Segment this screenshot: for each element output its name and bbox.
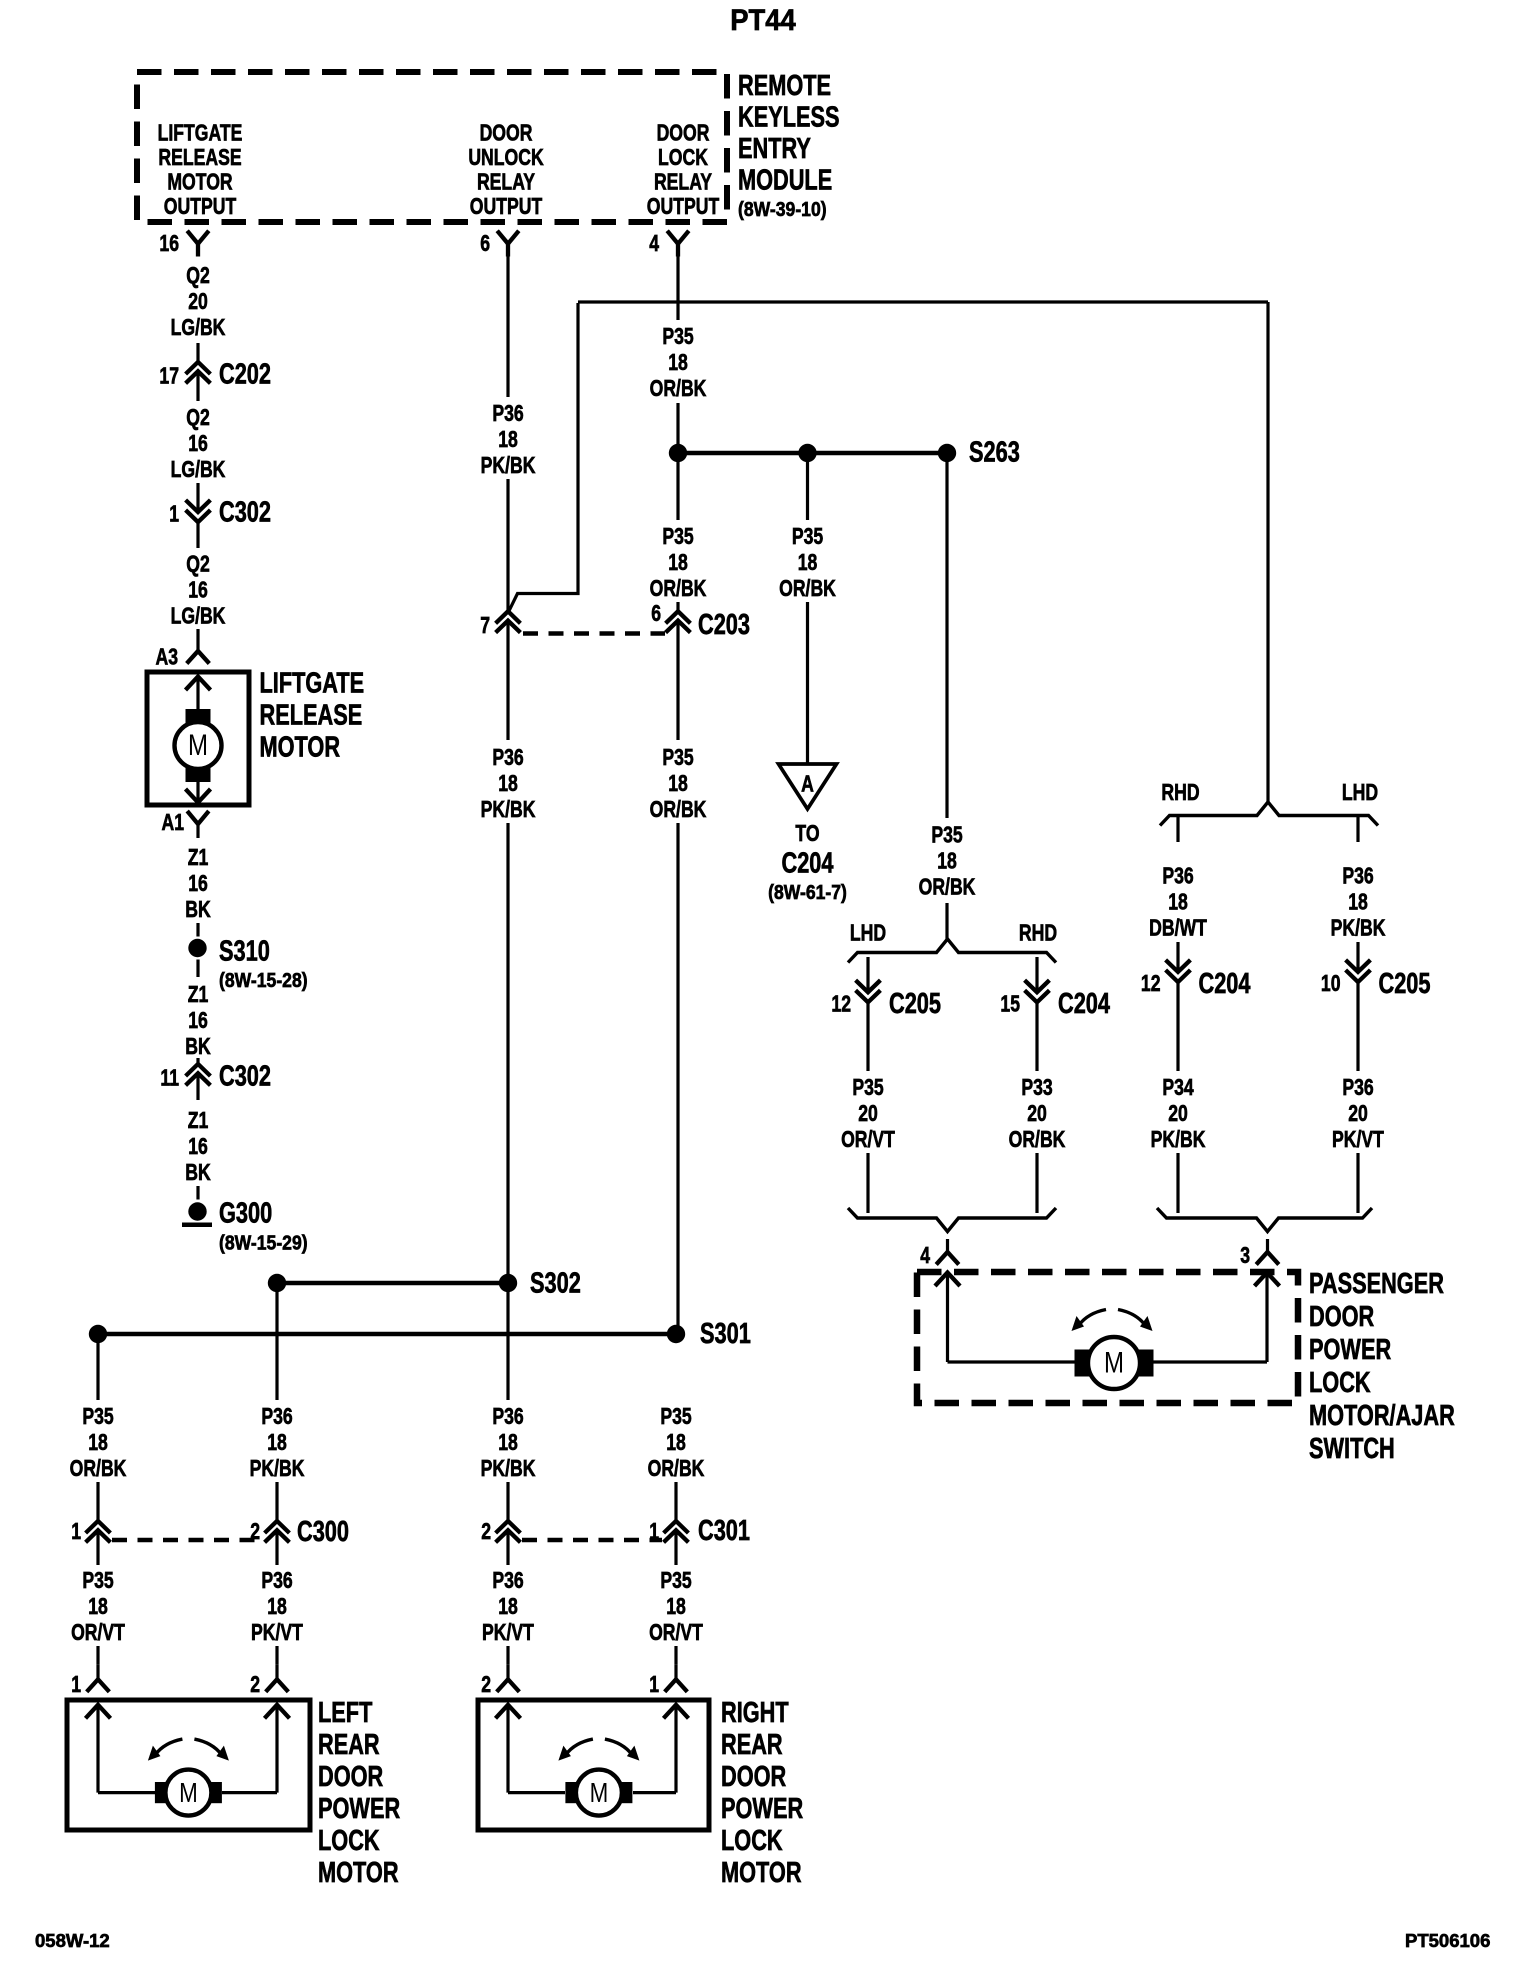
svg-text:PK/VT: PK/VT <box>251 1620 303 1646</box>
svg-text:RELEASE: RELEASE <box>158 145 241 171</box>
svg-text:18: 18 <box>88 1430 108 1456</box>
svg-text:18: 18 <box>798 550 818 576</box>
label: RIGHT REAR DOOR POWER LOCK MOTOR <box>721 1697 803 1889</box>
brace merge to passenger pin 3 <box>1157 1208 1372 1232</box>
svg-text:P35: P35 <box>662 324 693 350</box>
connector C300 pin 2 <box>250 1516 349 1548</box>
svg-text:P35: P35 <box>82 1568 113 1594</box>
svg-text:PK/VT: PK/VT <box>1332 1127 1384 1153</box>
svg-text:G300: G300 <box>219 1198 272 1230</box>
svg-text:20: 20 <box>188 289 208 315</box>
wire Q2 16 LG/BK (C302 to liftgate motor) <box>171 522 226 636</box>
svg-text:DOOR: DOOR <box>318 1761 383 1793</box>
svg-text:C204: C204 <box>1199 968 1252 1000</box>
svg-text:REAR: REAR <box>318 1729 380 1761</box>
wire P35 18 OR/BK (S263 to triangle A) <box>779 462 836 763</box>
wire P35 18 OR/BK (S301 to C300-1) <box>70 1334 127 1521</box>
svg-text:SWITCH: SWITCH <box>1309 1433 1395 1465</box>
svg-text:OR/VT: OR/VT <box>841 1127 895 1153</box>
svg-text:C204: C204 <box>782 848 835 880</box>
svg-text:18: 18 <box>498 1430 518 1456</box>
svg-text:(8W-15-28): (8W-15-28) <box>219 969 308 991</box>
module label: REMOTE KEYLESS ENTRY MODULE (8W-39-10) <box>738 70 840 220</box>
splice S302 <box>268 1268 581 1300</box>
svg-text:PASSENGER: PASSENGER <box>1309 1268 1444 1300</box>
svg-text:P36: P36 <box>1342 863 1373 889</box>
liftgate motor pin A3 <box>155 636 209 670</box>
svg-text:1: 1 <box>169 501 179 527</box>
wire P36 18 DB/WT (brace to C204-12) <box>1149 817 1207 972</box>
svg-text:P36: P36 <box>261 1404 292 1430</box>
svg-text:PK/BK: PK/BK <box>481 1456 536 1482</box>
svg-text:POWER: POWER <box>1309 1334 1391 1366</box>
connector C205 pin 10 <box>1321 960 1431 1000</box>
module U1: Remote Keyless Entry Module box <box>137 72 727 222</box>
svg-text:MOTOR: MOTOR <box>721 1857 802 1889</box>
svg-text:(8W-61-7): (8W-61-7) <box>768 881 847 903</box>
svg-text:OR/BK: OR/BK <box>70 1456 127 1482</box>
svg-text:C300: C300 <box>297 1516 349 1548</box>
label: PASSENGER DOOR POWER LOCK MOTOR/AJAR SWITCH <box>1309 1268 1455 1465</box>
svg-text:OUTPUT: OUTPUT <box>647 194 720 220</box>
svg-text:S302: S302 <box>530 1268 581 1300</box>
connector C204 pin 15 <box>1000 957 1110 1020</box>
svg-text:6: 6 <box>651 601 661 627</box>
door lock bus wire to right side <box>578 300 1268 303</box>
svg-text:PT506106: PT506106 <box>1405 1930 1490 1951</box>
svg-text:6: 6 <box>480 231 490 257</box>
svg-text:UNLOCK: UNLOCK <box>468 145 543 171</box>
svg-text:20: 20 <box>1027 1101 1047 1127</box>
svg-text:PK/BK: PK/BK <box>1151 1127 1206 1153</box>
svg-text:A1: A1 <box>161 810 184 836</box>
svg-text:Z1: Z1 <box>188 845 209 871</box>
svg-text:12: 12 <box>831 991 851 1017</box>
svg-text:OR/BK: OR/BK <box>648 1456 705 1482</box>
motor M4: Right Rear Door Power Lock Motor box <box>478 1700 709 1830</box>
svg-text:2: 2 <box>250 1672 260 1698</box>
svg-text:P34: P34 <box>1162 1075 1194 1101</box>
svg-text:PK/BK: PK/BK <box>250 1456 305 1482</box>
svg-text:RHD: RHD <box>1161 780 1199 806</box>
svg-text:18: 18 <box>498 427 518 453</box>
wire Q2 16 LG/BK (C202 to C302) <box>171 405 226 512</box>
wire P35 18 OR/BK (C203-6 to S301) <box>650 621 707 1334</box>
svg-text:17: 17 <box>159 363 179 389</box>
wire P35 18 OR/BK (S301 to C301-1) <box>648 1404 705 1521</box>
connector C204 pin 12 <box>1141 960 1251 1000</box>
passenger door pin 4 <box>920 1239 959 1269</box>
svg-text:S301: S301 <box>700 1318 751 1350</box>
svg-text:PK/BK: PK/BK <box>1331 915 1386 941</box>
svg-text:18: 18 <box>498 771 518 797</box>
connector C203 pin 7 <box>480 611 520 638</box>
svg-text:16: 16 <box>188 1134 208 1160</box>
wire P35 18 OR/VT (C300-1 to left rear motor) <box>71 1530 125 1664</box>
connector C300 body (dashed) <box>112 1538 263 1543</box>
connector C301 pin 1 <box>649 1515 750 1547</box>
splice S310 <box>188 936 307 992</box>
svg-text:P35: P35 <box>852 1075 883 1101</box>
svg-text:MOTOR: MOTOR <box>167 169 232 195</box>
svg-text:OR/BK: OR/BK <box>779 576 836 602</box>
svg-text:15: 15 <box>1000 991 1020 1017</box>
connector C302 pin 11 <box>160 1061 271 1093</box>
svg-text:18: 18 <box>1348 889 1368 915</box>
svg-text:18: 18 <box>88 1594 108 1620</box>
svg-text:LIFTGATE: LIFTGATE <box>158 120 243 146</box>
svg-text:DOOR: DOOR <box>480 120 533 146</box>
svg-text:REAR: REAR <box>721 1729 783 1761</box>
svg-text:RELAY: RELAY <box>654 169 712 195</box>
svg-text:LOCK: LOCK <box>721 1825 783 1857</box>
svg-text:S263: S263 <box>969 437 1020 469</box>
svg-text:LG/BK: LG/BK <box>171 457 226 483</box>
svg-text:4: 4 <box>920 1243 930 1269</box>
svg-text:18: 18 <box>666 1594 686 1620</box>
label: LIFTGATE RELEASE MOTOR <box>260 668 365 764</box>
left rear motor symbol <box>148 1739 229 1816</box>
svg-text:P35: P35 <box>82 1404 113 1430</box>
wire P33 20 OR/BK (C204-15 to lock motor brace) <box>1009 1002 1066 1213</box>
svg-text:18: 18 <box>666 1430 686 1456</box>
svg-text:Q2: Q2 <box>186 263 210 289</box>
svg-text:(8W-39-10): (8W-39-10) <box>738 198 827 220</box>
svg-text:DOOR: DOOR <box>721 1761 786 1793</box>
connector C302 pin 1 <box>169 497 271 529</box>
svg-text:1: 1 <box>649 1672 659 1698</box>
svg-text:P36: P36 <box>492 1568 523 1594</box>
module output label: LIFTGATE RELEASE MOTOR OUTPUT <box>158 120 243 220</box>
svg-text:P35: P35 <box>792 524 823 550</box>
svg-text:OR/BK: OR/BK <box>650 376 707 402</box>
module output label: DOOR LOCK RELAY OUTPUT <box>647 120 720 220</box>
svg-text:18: 18 <box>498 1594 518 1620</box>
module pin 6 <box>480 231 519 257</box>
svg-text:3: 3 <box>1240 1243 1250 1269</box>
wire P35 18 OR/BK (S263 to C203-6) <box>650 462 707 611</box>
svg-text:A: A <box>801 771 814 797</box>
svg-text:18: 18 <box>1168 889 1188 915</box>
svg-text:M: M <box>1104 1345 1124 1379</box>
svg-text:Q2: Q2 <box>186 405 210 431</box>
svg-text:RELAY: RELAY <box>477 169 535 195</box>
svg-text:BK: BK <box>185 897 210 923</box>
svg-text:DOOR: DOOR <box>657 120 710 146</box>
svg-text:P36: P36 <box>492 401 523 427</box>
wire P34 20 PK/BK (C204-12 to brace) <box>1151 982 1206 1213</box>
svg-text:REMOTE: REMOTE <box>738 70 831 102</box>
svg-text:P36: P36 <box>492 1404 523 1430</box>
svg-text:LIFTGATE: LIFTGATE <box>260 668 365 700</box>
brace merge to passenger pin 4 <box>848 1208 1056 1232</box>
svg-text:RIGHT: RIGHT <box>721 1697 789 1729</box>
svg-text:Q2: Q2 <box>186 551 210 577</box>
svg-text:C205: C205 <box>1379 968 1431 1000</box>
wire Z1 16 BK (C302-11 to G300) <box>185 1073 210 1199</box>
svg-text:OUTPUT: OUTPUT <box>470 194 543 220</box>
module pin 16 <box>159 231 208 257</box>
wire P36 18 PK/BK (brace to C205-10) <box>1331 817 1386 972</box>
motor M3: Left Rear Door Power Lock Motor box <box>67 1700 310 1830</box>
svg-text:RHD: RHD <box>1019 920 1057 946</box>
svg-text:7: 7 <box>480 613 490 639</box>
svg-text:M: M <box>590 1778 609 1809</box>
svg-text:Z1: Z1 <box>188 982 209 1008</box>
connector C301 body (dashed) <box>522 1538 662 1543</box>
wire P36 20 PK/VT (C205-10 to brace) <box>1332 982 1384 1213</box>
motor M2: Passenger Door Power Lock Motor/Ajar Switch box <box>917 1272 1298 1403</box>
wire P35 20 OR/VT (C205-12 to lock motor brace) <box>841 1002 895 1213</box>
splice S301 <box>89 1318 751 1350</box>
svg-text:18: 18 <box>668 771 688 797</box>
wire P36 18 PK/BK (S302 to C301-2) <box>481 1404 536 1521</box>
module output label: DOOR UNLOCK RELAY OUTPUT <box>468 120 543 220</box>
svg-text:C203: C203 <box>698 609 750 641</box>
svg-text:P35: P35 <box>662 524 693 550</box>
svg-text:BK: BK <box>185 1160 210 1186</box>
svg-text:LOCK: LOCK <box>1309 1367 1371 1399</box>
connector C202 pin 17 <box>159 359 271 401</box>
svg-text:LHD: LHD <box>850 920 886 946</box>
wire P35 18 OR/BK (pin4 to S263) <box>650 257 707 445</box>
passenger door motor symbol <box>1072 1310 1154 1390</box>
svg-text:OR/BK: OR/BK <box>1009 1127 1066 1153</box>
svg-text:P36: P36 <box>1342 1075 1373 1101</box>
svg-text:BK: BK <box>185 1034 210 1060</box>
svg-text:P36: P36 <box>492 745 523 771</box>
ground G300 <box>182 1198 308 1254</box>
svg-text:18: 18 <box>668 550 688 576</box>
brace split RHD/LHD (right side) <box>1160 780 1378 826</box>
passenger door pin 3 <box>1240 1239 1279 1269</box>
svg-text:P35: P35 <box>660 1404 691 1430</box>
svg-text:LOCK: LOCK <box>658 145 708 171</box>
connector C300 pin 1 <box>71 1519 110 1545</box>
svg-text:RELEASE: RELEASE <box>260 700 363 732</box>
wire Q2 20 LG/BK (pin16 to C202) <box>171 263 226 362</box>
svg-text:OR/VT: OR/VT <box>649 1620 703 1646</box>
connector C205 pin 12 <box>831 957 941 1020</box>
wire P35 18 OR/BK (S263 to LHD/RHD brace) <box>919 462 976 940</box>
module pin 4 <box>649 231 689 257</box>
svg-text:POWER: POWER <box>721 1793 803 1825</box>
svg-text:1: 1 <box>71 1519 81 1545</box>
connector C301 pin 2 <box>481 1519 520 1545</box>
svg-text:P36: P36 <box>261 1568 292 1594</box>
connector C203 body (dashed) <box>523 631 665 636</box>
wire P36 18 PK/VT (C300-2 to left rear motor) <box>251 1530 303 1664</box>
wire P36 18 PK/BK (S302 to C300-2) <box>250 1283 305 1521</box>
svg-text:C205: C205 <box>889 988 941 1020</box>
svg-text:PT44: PT44 <box>730 4 796 37</box>
svg-text:P36: P36 <box>1162 863 1193 889</box>
right rear motor pin 1 <box>649 1664 687 1697</box>
wire P36 18 PK/BK (C203-7 to S302) <box>481 621 536 1400</box>
wire P36 18 PK/BK (pin6 to C203-7) <box>481 257 536 612</box>
wire Z1 16 BK (A1 to S310) <box>185 845 210 937</box>
svg-text:Z1: Z1 <box>188 1108 209 1134</box>
wire jog from door-lock bus down to C203 pin 7 <box>509 303 578 611</box>
wire P36 18 PK/VT (C301-2 to right rear motor) <box>482 1530 534 1664</box>
svg-text:20: 20 <box>858 1101 878 1127</box>
svg-text:KEYLESS: KEYLESS <box>738 102 840 134</box>
svg-text:LOCK: LOCK <box>318 1825 380 1857</box>
svg-text:LG/BK: LG/BK <box>171 315 226 341</box>
left rear motor pin 1 <box>71 1664 109 1697</box>
svg-text:MODULE: MODULE <box>738 165 832 197</box>
svg-text:DB/WT: DB/WT <box>1149 915 1207 941</box>
right rear motor pin 2 <box>481 1664 519 1697</box>
svg-text:PK/BK: PK/BK <box>481 797 536 823</box>
svg-text:18: 18 <box>937 848 957 874</box>
svg-text:C202: C202 <box>219 359 271 391</box>
wire P35 18 OR/VT (C301-1 to right rear motor) <box>649 1530 703 1664</box>
svg-text:P33: P33 <box>1021 1075 1052 1101</box>
brace split LHD/RHD <box>848 920 1057 962</box>
svg-text:P35: P35 <box>931 822 962 848</box>
svg-text:MOTOR: MOTOR <box>260 732 341 764</box>
svg-text:2: 2 <box>481 1519 491 1545</box>
svg-text:4: 4 <box>649 231 659 257</box>
svg-text:(8W-15-29): (8W-15-29) <box>219 1231 308 1253</box>
svg-text:16: 16 <box>159 231 179 257</box>
svg-text:S310: S310 <box>219 936 270 968</box>
svg-text:20: 20 <box>1168 1101 1188 1127</box>
svg-text:LG/BK: LG/BK <box>171 603 226 629</box>
svg-text:16: 16 <box>188 431 208 457</box>
svg-text:18: 18 <box>668 350 688 376</box>
svg-text:MOTOR/AJAR: MOTOR/AJAR <box>1309 1400 1455 1432</box>
svg-text:ENTRY: ENTRY <box>738 133 811 165</box>
svg-text:P35: P35 <box>662 745 693 771</box>
svg-text:DOOR: DOOR <box>1309 1301 1374 1333</box>
svg-text:PK/VT: PK/VT <box>482 1620 534 1646</box>
svg-text:TO: TO <box>795 821 819 847</box>
label: LEFT REAR DOOR POWER LOCK MOTOR <box>318 1697 400 1889</box>
svg-text:OR/VT: OR/VT <box>71 1620 125 1646</box>
svg-text:PK/BK: PK/BK <box>481 453 536 479</box>
liftgate motor pin A1 <box>161 810 208 838</box>
svg-text:LEFT: LEFT <box>318 1697 373 1729</box>
svg-text:20: 20 <box>1348 1101 1368 1127</box>
svg-text:16: 16 <box>188 1008 208 1034</box>
svg-text:M: M <box>179 1778 198 1809</box>
svg-text:POWER: POWER <box>318 1793 400 1825</box>
svg-text:12: 12 <box>1141 971 1161 997</box>
svg-text:C302: C302 <box>219 497 271 529</box>
svg-text:C301: C301 <box>698 1515 750 1547</box>
left rear motor pin 2 <box>250 1664 288 1697</box>
svg-text:C302: C302 <box>219 1061 271 1093</box>
svg-text:OR/BK: OR/BK <box>650 797 707 823</box>
svg-text:OR/BK: OR/BK <box>650 576 707 602</box>
svg-text:OR/BK: OR/BK <box>919 874 976 900</box>
svg-text:C204: C204 <box>1058 988 1111 1020</box>
wire Z1 16 BK (S310 to C302-11) <box>185 960 210 1065</box>
svg-text:1: 1 <box>71 1672 81 1698</box>
svg-text:16: 16 <box>188 577 208 603</box>
svg-text:10: 10 <box>1321 971 1341 997</box>
svg-text:18: 18 <box>267 1594 287 1620</box>
motor M1: Liftgate Release Motor <box>147 672 249 805</box>
svg-text:18: 18 <box>267 1430 287 1456</box>
svg-text:058W-12: 058W-12 <box>35 1930 110 1951</box>
svg-text:11: 11 <box>160 1065 179 1091</box>
svg-text:MOTOR: MOTOR <box>318 1857 399 1889</box>
svg-text:2: 2 <box>481 1672 491 1698</box>
off-page connector A to C204 (8W-61-7) <box>768 764 847 903</box>
svg-text:LHD: LHD <box>1342 780 1378 806</box>
right rear motor symbol <box>558 1739 639 1816</box>
svg-text:M: M <box>188 727 208 761</box>
svg-text:A3: A3 <box>155 644 178 670</box>
connector C203 pin 6 <box>651 601 750 641</box>
wire from door lock bus down right side <box>1266 302 1269 803</box>
svg-text:P35: P35 <box>660 1568 691 1594</box>
svg-text:16: 16 <box>188 871 208 897</box>
svg-text:OUTPUT: OUTPUT <box>164 194 237 220</box>
splice S263 <box>669 437 1020 469</box>
